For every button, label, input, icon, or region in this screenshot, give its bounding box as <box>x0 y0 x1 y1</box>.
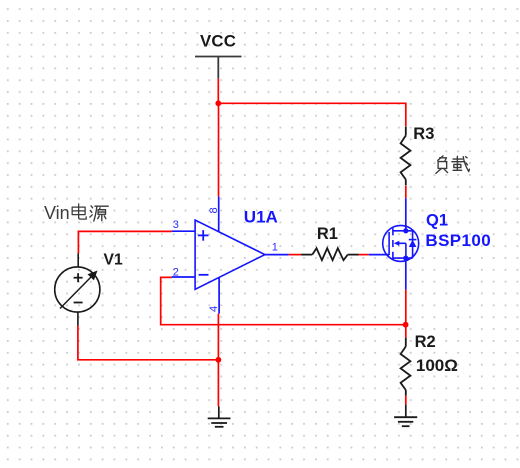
junction node V1/pin4 ground rail <box>216 357 222 363</box>
svg-text:1: 1 <box>272 242 278 254</box>
svg-text:8: 8 <box>208 207 220 213</box>
svg-text:R3: R3 <box>413 125 434 143</box>
op-amp pin 4 stub (blue) <box>218 277 220 313</box>
label Vin电源 : glyph 电 <box>72 204 86 219</box>
V1 arrow head <box>88 271 98 281</box>
wire R1 to Q1 gate (red then blue) <box>359 254 369 256</box>
label 负载 (load) : glyph 载 <box>452 156 470 171</box>
svg-text:Q1: Q1 <box>426 211 448 229</box>
svg-text:BSP100: BSP100 <box>425 231 491 250</box>
wire V1 plus to op-amp pin 3 (red) <box>78 231 171 253</box>
wire op-amp output to R1 (red) <box>289 254 301 256</box>
junction node at VCC rail <box>215 100 221 106</box>
svg-text:R2: R2 <box>415 333 436 351</box>
svg-text:U1A: U1A <box>244 207 278 226</box>
wire node to R2 (red) <box>405 325 407 338</box>
label Vin电源 : glyph 源 <box>90 206 108 221</box>
transistor Q1 (NMOS with body diode) <box>383 225 419 261</box>
svg-text:2: 2 <box>173 267 179 279</box>
svg-text:V1: V1 <box>104 251 123 268</box>
svg-text:Vin: Vin <box>44 203 70 223</box>
Q1 source arrow <box>394 241 400 246</box>
wire V1 minus to ground node (red) <box>78 326 219 360</box>
wire node to ground (black stub) <box>218 406 220 418</box>
op-amp output pin 1 stub (blue) <box>265 254 289 256</box>
resistor R2 <box>401 338 411 396</box>
ground (right, under R2) <box>394 417 417 426</box>
wire VCC stub to node (red) <box>217 79 219 104</box>
power symbol VCC <box>195 57 242 79</box>
op-amp U1A <box>195 220 265 289</box>
Q1 body diode triangle <box>409 240 417 247</box>
Q1 source junction dot <box>403 256 408 261</box>
wire R3 to Q1 drain (red then blue) <box>405 186 407 199</box>
wire feedback op-amp pin 2 to source node (red) <box>161 277 406 324</box>
resistor R3 <box>401 126 411 185</box>
svg-text:100Ω: 100Ω <box>416 356 458 375</box>
svg-text:VCC: VCC <box>200 32 236 51</box>
op-amp pin 8 stub (blue) <box>218 197 220 232</box>
op-amp pin 2 stub (blue) <box>172 276 196 278</box>
wire VCC rail top horizontal to R3 <box>218 103 405 126</box>
wire VCC rail down to op-amp pin 8 <box>218 103 220 196</box>
svg-text:R1: R1 <box>317 225 338 243</box>
op-amp pin 3 stub (blue) <box>172 230 196 232</box>
source V1 <box>55 254 100 326</box>
label 负载 (load) : glyph 负 <box>436 156 448 173</box>
wire op-amp pin 4 to ground (red) <box>217 314 219 407</box>
ground (left) <box>208 418 231 426</box>
svg-text:4: 4 <box>208 306 220 312</box>
junction node Q1 source / feedback / R2 <box>403 322 409 328</box>
wire Q1 source down (blue then red) <box>405 258 407 290</box>
svg-text:3: 3 <box>173 219 179 231</box>
wire R2 to ground (red then black) <box>405 396 407 405</box>
resistor R1 <box>301 248 358 260</box>
Q1 drain junction dot <box>403 228 408 233</box>
